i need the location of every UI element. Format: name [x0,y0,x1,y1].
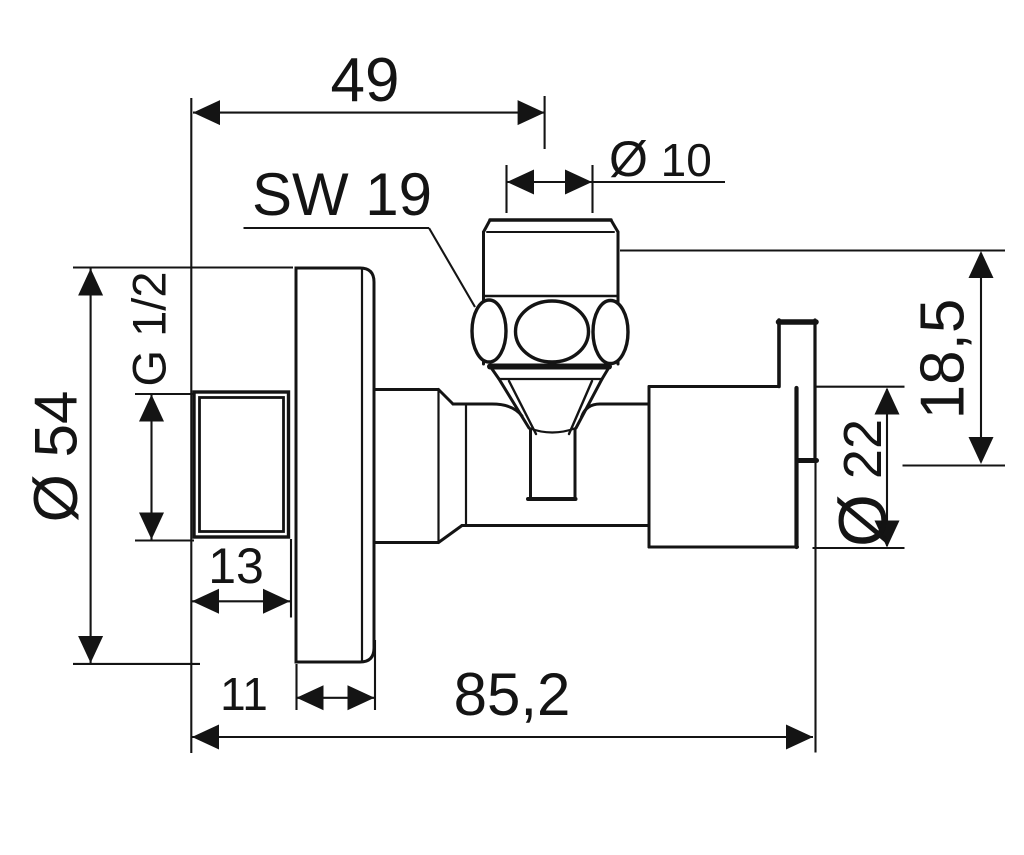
svg-text:SW 19: SW 19 [252,161,432,228]
svg-text:49: 49 [331,46,400,115]
svg-text:13: 13 [208,538,264,594]
svg-text:Ø 54: Ø 54 [22,391,91,523]
svg-text:G 1/2: G 1/2 [123,272,176,387]
svg-text:Ø 10: Ø 10 [609,131,712,187]
svg-text:85,2: 85,2 [454,661,571,728]
svg-text:18,5: 18,5 [909,299,978,420]
svg-text:11: 11 [220,668,268,720]
svg-text:Ø 22: Ø 22 [825,419,901,547]
